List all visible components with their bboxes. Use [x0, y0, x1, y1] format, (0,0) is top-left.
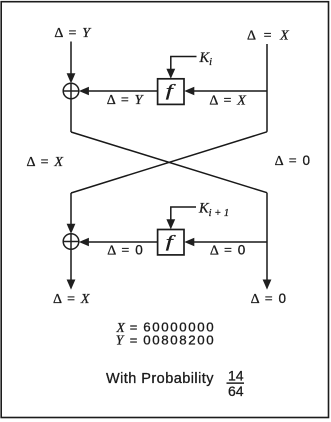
arrowhead into f2 right [184, 238, 194, 247]
svg-text:64: 64 [228, 383, 244, 399]
fraction 14/64 [227, 367, 245, 399]
svg-text:Δ = 0: Δ = 0 [107, 243, 142, 259]
svg-text:Δ = 0: Δ = 0 [275, 153, 310, 169]
wire f1 to xor1 [88, 90, 158, 92]
arrowhead output left [67, 280, 76, 290]
value line Y = 00808200 [116, 333, 215, 348]
svg-text:Δ = 0: Δ = 0 [210, 243, 245, 259]
arrowhead key Ki+1 into f2 [166, 219, 175, 229]
arrowhead into xor2 right [79, 238, 89, 247]
svg-text:Δ = Y: Δ = Y [54, 26, 92, 41]
svg-text:Δ = Y: Δ = Y [107, 93, 145, 108]
wire top-left input [70, 42, 72, 75]
wire key Ki elbow [171, 57, 197, 71]
wire f2 to xor2 [88, 241, 158, 243]
svg-text:Δ = X: Δ = X [209, 93, 246, 108]
xor gate X2 [63, 234, 79, 250]
f-function box round 2 [158, 230, 184, 255]
svg-text:Δ = 0: Δ = 0 [251, 291, 286, 307]
arrowhead key Ki into f1 [166, 69, 175, 79]
wire xor2 down output [70, 249, 72, 280]
svg-text:Δ = X: Δ = X [247, 28, 289, 43]
wire top-right input [266, 44, 268, 132]
wire right down output [266, 193, 268, 281]
wire xor1 down [70, 99, 72, 132]
svg-text:=: = [130, 333, 138, 348]
svg-text:With Probability: With Probability [106, 371, 214, 387]
arrowhead into xor1 top [67, 73, 76, 83]
arrowhead into f1 right [184, 87, 194, 96]
arrowhead into xor2 top [67, 224, 76, 234]
arrowhead output right [263, 280, 272, 290]
wire right to f2 [194, 241, 268, 243]
wire diagonal left-to-right [71, 132, 267, 193]
svg-text:Δ = X: Δ = X [53, 292, 90, 307]
svg-text:14: 14 [228, 367, 244, 383]
wire right to f1 [194, 90, 268, 92]
svg-text:Δ = X: Δ = X [26, 155, 63, 170]
wire left into xor2 [70, 193, 72, 225]
value line X = 60000000 [116, 320, 216, 335]
wire key Ki+1 elbow [171, 207, 196, 221]
xor gate X1 [63, 83, 79, 99]
wire diagonal right-to-left [71, 132, 267, 193]
arrowhead into xor1 right [79, 87, 89, 96]
svg-text:00808200: 00808200 [143, 333, 215, 348]
f-function box round 1 [158, 79, 184, 105]
